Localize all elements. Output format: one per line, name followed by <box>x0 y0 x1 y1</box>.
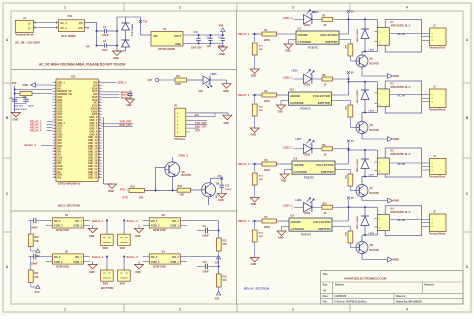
wire led2 <box>294 78 304 80</box>
svg-text:IO15: IO15 <box>57 146 63 148</box>
capacitor C10 io0 <box>128 93 133 95</box>
svg-text:63: 63 <box>99 162 101 164</box>
svg-text:1K: 1K <box>324 154 327 156</box>
wire R6 to LED <box>187 79 203 81</box>
wire led1 <box>294 18 304 20</box>
wire to opto IC3 <box>277 163 293 165</box>
svg-text:GND_24: GND_24 <box>88 177 98 180</box>
svg-text:GND: GND <box>251 75 257 78</box>
power flag 7V5 <box>139 20 142 23</box>
svg-text:GND: GND <box>393 199 399 203</box>
svg-text:LED2: LED2 <box>304 84 311 87</box>
ground P1 <box>223 115 232 120</box>
svg-text:CATHODE: CATHODE <box>290 101 304 105</box>
resistor R3a 220R <box>262 162 277 166</box>
svg-text:38: 38 <box>99 90 101 92</box>
svg-text:COLLECTOR: COLLECTOR <box>313 94 330 98</box>
resistor R22 10K <box>216 238 221 251</box>
svg-text:1N4007 SMD: 1N4007 SMD <box>355 90 358 104</box>
svg-text:File:: File: <box>323 300 328 303</box>
svg-text:GND: GND <box>126 104 132 107</box>
section divider mcu/button <box>11 210 237 212</box>
svg-text:10K: 10K <box>222 244 227 246</box>
svg-text:100nF: 100nF <box>225 189 232 191</box>
svg-text:GND_8: GND_8 <box>89 131 97 133</box>
svg-text:IO17: IO17 <box>57 160 63 162</box>
svg-text:Button_2: Button_2 <box>127 219 139 223</box>
transistor Q6 BC547B <box>356 122 368 134</box>
tactile switch SW2 <box>118 234 131 245</box>
wire emitter to gnd ch2 <box>361 134 363 140</box>
net label TXD_URT P1 <box>190 120 208 122</box>
svg-text:RT7333-33GB5: RT7333-33GB5 <box>158 48 176 51</box>
relay K2 outline <box>385 81 422 113</box>
svg-text:ANODE: ANODE <box>298 33 308 37</box>
svg-text:37: 37 <box>99 87 101 89</box>
svg-text:3: 3 <box>432 40 433 42</box>
capacitor C13 100nF <box>221 178 223 185</box>
svg-text:220R: 220R <box>264 40 270 42</box>
svg-text:COM_2: COM_2 <box>151 261 160 264</box>
svg-text:IO35: IO35 <box>57 100 63 102</box>
svg-text:R23: R23 <box>222 276 227 278</box>
svg-text:LED7: LED7 <box>369 174 375 176</box>
svg-text:EMITTER: EMITTER <box>318 101 330 105</box>
svg-text:4: 4 <box>406 308 408 312</box>
svg-text:VIN: VIN <box>153 34 157 38</box>
svg-text:3V3: 3V3 <box>12 82 17 85</box>
resistor R3led 1K <box>312 148 322 150</box>
resistor R4a 220R <box>262 219 277 223</box>
svg-text:18: 18 <box>54 130 56 132</box>
svg-text:Terminal Block: Terminal Block <box>429 177 446 179</box>
relay K1 outline <box>385 20 422 53</box>
svg-text:2: 2 <box>432 166 433 168</box>
svg-text:7V5: 7V5 <box>86 46 91 49</box>
power flag 3V3 R20 <box>30 247 32 252</box>
svg-text:AC_1: AC_1 <box>60 21 67 25</box>
ground c10 <box>126 99 135 104</box>
svg-text:ANODE: ANODE <box>294 163 304 167</box>
svg-text:GND: GND <box>393 137 399 141</box>
svg-text:GND_16: GND_16 <box>88 155 98 157</box>
svg-text:RELAY_3: RELAY_3 <box>238 162 250 166</box>
svg-text:IC4: IC4 <box>291 215 295 218</box>
svg-text:GND_10: GND_10 <box>88 137 98 139</box>
ground S2 <box>138 225 140 228</box>
power flag 3V3 R23 <box>218 287 220 291</box>
svg-text:COM_2: COM_2 <box>54 261 63 264</box>
svg-text:3: 3 <box>432 102 433 104</box>
ground arrow ch2 <box>388 137 393 142</box>
svg-text:IO21: IO21 <box>57 175 63 177</box>
svg-text:10K: 10K <box>259 110 263 112</box>
resistor R2b pulldown 10K <box>254 95 256 103</box>
svg-text:IO19: IO19 <box>57 169 63 171</box>
svg-text:13: 13 <box>54 116 56 118</box>
svg-text:22: 22 <box>54 142 56 144</box>
svg-text:IO33: IO33 <box>57 106 63 108</box>
svg-text:LED1: LED1 <box>304 24 311 27</box>
svg-text:SW2: SW2 <box>120 247 126 250</box>
svg-text:39: 39 <box>99 93 101 95</box>
svg-text:COLLECTOR: COLLECTOR <box>313 220 330 224</box>
svg-text:LED4: LED4 <box>304 212 311 215</box>
svg-text:NO_2: NO_2 <box>151 256 158 259</box>
svg-text:GND: GND <box>13 118 19 121</box>
terminal block J1 <box>15 20 33 32</box>
svg-text:28: 28 <box>54 159 56 161</box>
svg-text:62: 62 <box>99 159 101 161</box>
svg-text:BC547B: BC547B <box>370 62 379 65</box>
svg-text:SENSOR_VP: SENSOR_VP <box>57 91 72 93</box>
svg-text:LED7: LED7 <box>296 139 303 141</box>
wire button4 to SW3 <box>106 257 108 271</box>
svg-text:R12: R12 <box>131 185 136 188</box>
svg-text:GND: GND <box>224 122 230 125</box>
svg-text:GND_6: GND_6 <box>89 126 97 128</box>
svg-text:36: 36 <box>99 84 101 86</box>
wire 5V rail ch3 <box>348 149 350 164</box>
transistor Q8 BC547B <box>356 242 368 254</box>
wire relay contacts to J2 <box>390 32 430 34</box>
svg-text:220R: 220R <box>264 101 270 103</box>
wire coil bottom rail ch1 <box>376 45 378 51</box>
relay K2 coil <box>377 89 389 107</box>
svg-text:NO_1: NO_1 <box>75 220 82 223</box>
svg-text:3V3: 3V3 <box>148 79 153 82</box>
resistor R14 EN pullup <box>20 92 32 96</box>
svg-text:GND_22: GND_22 <box>88 172 98 174</box>
wire LED to gnd <box>210 79 227 81</box>
svg-text:SW4: SW4 <box>120 283 126 286</box>
svg-text:SRD-05VDC-SL-C: SRD-05VDC-SL-C <box>391 153 411 156</box>
net label Button_2 right <box>102 97 120 99</box>
svg-text:Button_4: Button_4 <box>25 143 37 147</box>
wire relay2 input <box>252 94 262 96</box>
base resistor ch4 10K <box>332 226 350 228</box>
svg-text:GND: GND <box>281 180 287 183</box>
ground power input <box>113 51 122 56</box>
svg-text:RELAY_4: RELAY_4 <box>238 219 250 223</box>
IC2 pin stubs and pin names <box>53 82 57 84</box>
svg-text:PC817C: PC817C <box>301 106 311 110</box>
svg-text:GND: GND <box>89 235 95 238</box>
svg-text:10K: 10K <box>222 280 227 282</box>
svg-text:10: 10 <box>54 107 56 109</box>
ground opto ch3 <box>280 174 289 179</box>
svg-text:GND: GND <box>108 189 114 193</box>
resistor R3b pulldown 10K <box>254 164 256 172</box>
svg-text:GND: GND <box>219 52 225 56</box>
net label RXD_URT <box>102 126 133 128</box>
svg-text:65: 65 <box>99 168 101 170</box>
svg-text:HLK-10M05: HLK-10M05 <box>61 34 76 38</box>
wire S box to R22 rail <box>187 220 219 222</box>
svg-text:Date:: Date: <box>323 295 329 298</box>
wire opto cathode to gnd ch2 <box>281 100 289 102</box>
svg-text:SRD-05VDC-SL-C: SRD-05VDC-SL-C <box>391 25 411 28</box>
ground pulldown ch1 <box>250 69 259 74</box>
svg-text:RTS_1: RTS_1 <box>120 189 128 192</box>
power LED <box>203 76 210 84</box>
svg-text:1: 1 <box>379 163 380 165</box>
transistor Q6 BC547B <box>202 183 216 197</box>
wire to opto IC2 <box>277 94 289 96</box>
svg-text:LED5: LED5 <box>313 12 320 14</box>
relay K3 coil <box>377 158 389 174</box>
svg-text:3: 3 <box>292 6 294 10</box>
svg-text:RELAY_1: RELAY_1 <box>238 32 250 36</box>
svg-text:1: 1 <box>379 32 380 34</box>
resistor R4b pulldown 10K <box>254 221 256 229</box>
resistor R1led 1K <box>312 18 322 20</box>
svg-text:25: 25 <box>54 151 56 153</box>
svg-text:GND_13: GND_13 <box>88 146 98 148</box>
svg-text:GND_4: GND_4 <box>89 119 97 122</box>
ground pulldown ch4 <box>250 258 259 263</box>
wire R12 to Q5 base <box>145 189 178 191</box>
svg-text:67: 67 <box>99 174 101 176</box>
svg-text:10K: 10K <box>344 106 346 110</box>
svg-text:Title: Title <box>323 273 329 276</box>
svg-text:11: 11 <box>54 110 56 112</box>
svg-text:COLLECTOR: COLLECTOR <box>320 33 337 37</box>
wire relay1 input <box>252 33 262 35</box>
resistor R23 10K <box>216 274 221 287</box>
svg-text:PTM Pins: PTM Pins <box>174 138 185 141</box>
svg-text:Button_4: Button_4 <box>92 255 104 259</box>
svg-text:NO_1: NO_1 <box>172 220 179 223</box>
svg-text:15: 15 <box>54 122 56 124</box>
svg-text:10K: 10K <box>259 236 263 238</box>
tvs diode D8 <box>125 30 127 40</box>
svg-text:NO_1: NO_1 <box>75 256 82 259</box>
net label TXD_URT <box>102 123 133 125</box>
ground S3 <box>92 262 94 265</box>
wire led to 5V ch1 <box>333 18 349 20</box>
svg-text:AC IN: AC IN <box>398 162 405 166</box>
svg-text:GND_3: GND_3 <box>89 117 97 119</box>
svg-text:5V: 5V <box>351 72 354 75</box>
resistor R13 10K <box>177 188 190 192</box>
svg-text:1: 1 <box>379 93 380 95</box>
svg-text:IC2: IC2 <box>290 89 294 92</box>
svg-text:100nF: 100nF <box>28 105 35 107</box>
base resistor ch1 10K <box>339 39 350 41</box>
power flag 5V ch2 <box>347 71 350 74</box>
svg-text:1: 1 <box>432 33 433 35</box>
transistor Q5 BC547B <box>356 55 368 67</box>
svg-text:IO18: IO18 <box>92 97 98 99</box>
wire U1 output rail <box>183 34 223 36</box>
ground pulldown ch3 <box>250 198 259 203</box>
wire R13 to Q6 base <box>190 189 201 191</box>
svg-text:IO26: IO26 <box>57 111 63 113</box>
svg-text:IO16: IO16 <box>57 157 63 159</box>
svg-text:61: 61 <box>99 156 101 158</box>
svg-text:GND: GND <box>135 235 141 238</box>
svg-text:EMITTER: EMITTER <box>325 40 337 44</box>
ground opto ch2 <box>277 105 286 110</box>
svg-text:4: 4 <box>406 6 408 10</box>
svg-text:GND: GND <box>278 237 284 240</box>
svg-text:60: 60 <box>99 153 101 155</box>
svg-text:GND: GND <box>175 42 181 46</box>
tvs diode D7 <box>125 17 127 23</box>
svg-text:COM_2: COM_2 <box>151 225 160 228</box>
svg-text:NO_2: NO_2 <box>54 256 61 259</box>
svg-text:BUTTON: BUTTON <box>101 286 113 290</box>
power flag 5V ch3 <box>347 140 350 143</box>
svg-text:COLLECTOR: COLLECTOR <box>316 163 333 167</box>
resistor R4led 1K <box>312 206 322 208</box>
wire relay contacts to J4 <box>390 162 430 164</box>
svg-text:PC817C: PC817C <box>301 232 311 236</box>
svg-text:1N4007 SMD: 1N4007 SMD <box>355 216 358 230</box>
svg-text:IO16: IO16 <box>92 88 98 90</box>
wire emitter to gnd ch4 <box>361 254 363 260</box>
wire coil bottom rail ch2 <box>376 107 378 113</box>
svg-text:PS1: PS1 <box>68 14 73 18</box>
svg-text:27: 27 <box>54 156 56 158</box>
svg-text:IO21: IO21 <box>92 106 98 108</box>
svg-text:R13: R13 <box>178 185 183 188</box>
svg-text:LED3_1: LED3_1 <box>283 145 293 149</box>
svg-text:3V3: 3V3 <box>195 114 200 117</box>
svg-text:21: 21 <box>54 139 56 141</box>
svg-text:56: 56 <box>99 142 101 144</box>
indicator LED2 <box>304 74 312 84</box>
svg-text:GND_19: GND_19 <box>88 163 98 165</box>
svg-text:66: 66 <box>99 171 101 173</box>
svg-text:7V5: 7V5 <box>143 21 148 24</box>
svg-text:3: 3 <box>292 308 294 312</box>
wire relay3 input <box>252 163 262 165</box>
svg-text:GND_23: GND_23 <box>88 175 98 177</box>
wire collector ch4 <box>361 235 363 242</box>
svg-text:29: 29 <box>54 162 56 164</box>
svg-text:12: 12 <box>54 113 56 115</box>
svg-text:2: 2 <box>179 308 181 312</box>
svg-text:11/20/2023: 11/20/2023 <box>334 295 347 298</box>
svg-text:BZW-1020: BZW-1020 <box>153 228 166 232</box>
ground arrow ch4 <box>388 257 393 262</box>
svg-text:23: 23 <box>54 145 56 147</box>
wire opto cathode to gnd ch1 <box>289 39 297 41</box>
wire opto cathode to gnd ch3 <box>285 169 293 171</box>
tactile switch SW4 <box>118 270 131 281</box>
svg-text:AC IN: AC IN <box>398 94 405 98</box>
ground power led <box>222 84 231 89</box>
svg-text:1K: 1K <box>324 85 327 87</box>
svg-text:10K: 10K <box>34 241 39 243</box>
svg-text:26: 26 <box>54 153 56 155</box>
svg-text:AC_2: AC_2 <box>60 26 67 30</box>
svg-text:EMITTER: EMITTER <box>321 170 333 174</box>
base resistor ch3 10K <box>335 169 350 171</box>
svg-text:LED4_1: LED4_1 <box>283 204 293 208</box>
wire Q6 emitter down <box>208 197 210 205</box>
flyback diode D2 1N4007 <box>364 82 366 90</box>
wire led to 5V ch4 <box>333 206 349 208</box>
svg-text:Button_3: Button_3 <box>127 255 139 259</box>
wire collector ch1 <box>361 52 363 56</box>
svg-text:1: 1 <box>432 163 433 165</box>
power module PS1 HLK-10M05 <box>58 20 84 32</box>
svg-text:5V: 5V <box>351 140 354 143</box>
svg-text:GND_2: GND_2 <box>57 123 65 125</box>
wire to U1 VIN <box>141 34 152 36</box>
wire button1 to SW1 <box>106 220 108 234</box>
svg-text:ANODE: ANODE <box>290 94 300 98</box>
svg-text:R10: R10 <box>323 203 328 205</box>
svg-text:GND_18: GND_18 <box>88 160 98 162</box>
svg-text:100nF 100nF: 100nF 100nF <box>14 109 28 111</box>
svg-text:IO12: IO12 <box>57 120 63 122</box>
svg-text:GND: GND <box>393 74 399 78</box>
svg-text:VOUT: VOUT <box>174 34 182 38</box>
relay K4 outline <box>385 206 422 236</box>
svg-text:52: 52 <box>99 130 101 132</box>
wire collector ch2 <box>361 113 363 122</box>
wire Q6 collector to 3V3 <box>210 178 212 183</box>
svg-text:1: 1 <box>64 308 66 312</box>
net label 3V3 P1 <box>190 116 216 118</box>
indicator LED4 <box>304 202 312 212</box>
svg-text:Number: Number <box>335 284 344 287</box>
section divider power/mcu <box>11 69 237 71</box>
svg-text:Terminal Block: Terminal Block <box>429 48 446 50</box>
svg-text:ANODE: ANODE <box>291 220 301 224</box>
svg-text:PC817C: PC817C <box>304 175 314 179</box>
svg-text:PC817C: PC817C <box>308 45 318 49</box>
svg-text:IC2: IC2 <box>71 74 76 78</box>
svg-text:AC_DC HIGH VOLTAGE AREA, PLE: AC_DC HIGH VOLTAGE AREA, PLEASE DO NOT T… <box>39 63 125 67</box>
svg-text:TXD0: TXD0 <box>91 111 98 113</box>
svg-text:LED5: LED5 <box>369 49 375 51</box>
wire P1 pin1 to gnd <box>190 112 229 114</box>
svg-text:19: 19 <box>54 133 56 135</box>
svg-text:GND_17: GND_17 <box>88 157 98 159</box>
svg-text:2: 2 <box>379 104 380 106</box>
ground opto ch1 <box>284 44 293 49</box>
svg-text:COM_1: COM_1 <box>170 225 179 228</box>
svg-text:DTR: DTR <box>123 197 128 200</box>
svg-text:GND: GND <box>251 134 257 137</box>
ground below IC2 <box>108 184 117 189</box>
indicator LED1 <box>304 15 312 25</box>
net label GPIO_0 <box>102 82 116 84</box>
svg-text:IC1: IC1 <box>298 28 302 31</box>
transistor Q7 BC547B <box>356 185 368 197</box>
svg-text:GND: GND <box>223 90 229 93</box>
wire collector ch3 <box>361 177 363 185</box>
svg-text:GND: GND <box>113 56 119 60</box>
svg-text:Terminal Block: Terminal Block <box>15 33 34 37</box>
ground pulldown ch2 <box>250 128 259 133</box>
svg-text:2: 2 <box>432 98 433 100</box>
wire button2 to SW2 <box>123 220 125 234</box>
svg-text:RELAY_4: RELAY_4 <box>30 128 42 132</box>
svg-text:GND_9: GND_9 <box>89 134 97 136</box>
svg-text:RELAY_SECTION: RELAY_SECTION <box>244 287 269 291</box>
svg-text:GND: GND <box>218 199 224 202</box>
svg-text:22uF 25V: 22uF 25V <box>191 46 202 49</box>
svg-text:10K: 10K <box>344 232 346 236</box>
svg-text:3V3: 3V3 <box>215 297 220 301</box>
svg-text:GND: GND <box>89 271 95 274</box>
